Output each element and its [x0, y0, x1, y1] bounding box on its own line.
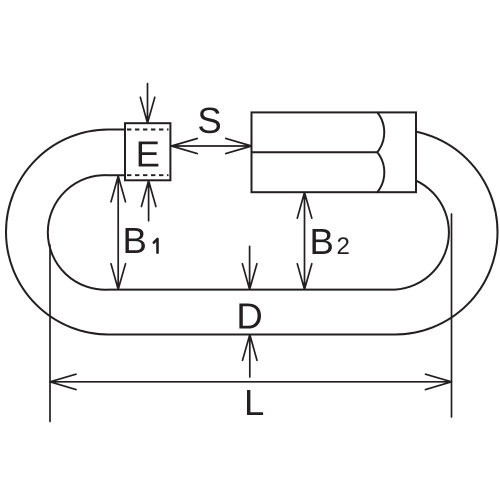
- extension line right: [451, 214, 453, 417]
- dimension S double arrow: [172, 138, 252, 153]
- sleeve wire end top arc: [377, 112, 384, 152]
- dimension D bottom arrow: [243, 335, 258, 377]
- link body outer contour: [6, 130, 498, 335]
- extension line left: [49, 245, 51, 422]
- dimension B2 double arrow: [297, 192, 312, 289]
- svg-text:B: B: [123, 220, 147, 261]
- dimension E bottom arrow: [141, 181, 156, 221]
- link body inner contour: [48, 175, 449, 290]
- sleeve nut outline: [252, 112, 417, 192]
- dimension E top arrow: [140, 84, 155, 124]
- sleeve middle parting line: [252, 151, 378, 153]
- dimension B1 double arrow: [111, 176, 126, 289]
- gap box top dashed wire line: [127, 129, 169, 131]
- dimension L line with arrows: [50, 374, 452, 389]
- gap box bottom dashed wire line: [127, 174, 169, 176]
- sleeve wire end bottom arc: [377, 152, 384, 192]
- svg-text:L: L: [244, 382, 264, 423]
- svg-text:B2: B2: [310, 221, 350, 262]
- svg-text:E: E: [136, 134, 160, 175]
- svg-text:S: S: [197, 100, 221, 141]
- dimension D top arrow: [242, 246, 257, 289]
- svg-text:D: D: [236, 296, 262, 337]
- gap box E: [125, 123, 170, 180]
